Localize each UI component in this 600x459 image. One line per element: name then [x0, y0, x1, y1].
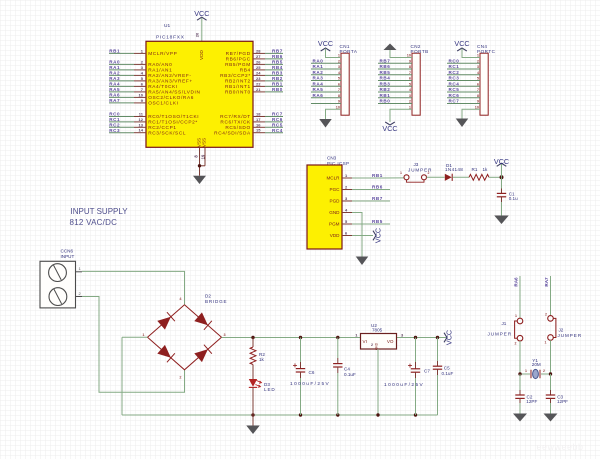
svg-text:27: 27: [256, 54, 261, 59]
svg-text:RB6: RB6: [272, 54, 283, 59]
svg-text:15: 15: [256, 128, 261, 133]
svg-text:23: 23: [256, 76, 261, 81]
svg-text:21: 21: [256, 87, 261, 92]
svg-text:PORTA: PORTA: [340, 49, 358, 54]
svg-text:2: 2: [543, 369, 545, 373]
svg-text:1: 1: [142, 333, 144, 337]
svg-text:8: 8: [338, 94, 340, 98]
svg-text:RB5: RB5: [372, 219, 383, 224]
svg-text:JUMPER: JUMPER: [488, 331, 513, 336]
svg-text:RB3: RB3: [380, 81, 391, 86]
svg-text:VDD: VDD: [199, 49, 204, 59]
svg-text:17: 17: [256, 117, 261, 122]
svg-text:RA6: RA6: [513, 277, 518, 287]
svg-text:RA6: RA6: [313, 93, 324, 98]
svg-text:C4: C4: [344, 366, 350, 371]
svg-text:RB0/INT0: RB0/INT0: [225, 90, 251, 96]
svg-text:8: 8: [409, 65, 411, 69]
svg-text:7: 7: [338, 88, 340, 92]
svg-text:VO: VO: [387, 339, 394, 344]
svg-text:VCC: VCC: [445, 330, 454, 345]
svg-text:RA7: RA7: [544, 277, 549, 287]
svg-text:RB1: RB1: [380, 93, 391, 98]
svg-text:RC6/TX/CK: RC6/TX/CK: [220, 120, 251, 126]
svg-text:10: 10: [139, 92, 144, 97]
svg-text:RA4: RA4: [109, 82, 120, 87]
svg-text:RA4/T0CKI: RA4/T0CKI: [148, 84, 178, 90]
svg-text:RC4: RC4: [272, 128, 283, 133]
svg-text:RB2: RB2: [272, 76, 283, 81]
svg-text:RB5/PGM: RB5/PGM: [225, 62, 251, 68]
svg-text:R1: R1: [472, 167, 478, 172]
svg-text:PGC: PGC: [330, 187, 341, 192]
svg-text:18: 18: [256, 112, 261, 117]
svg-text:VCC: VCC: [194, 9, 209, 18]
svg-text:GND: GND: [329, 210, 340, 215]
svg-text:VI: VI: [363, 339, 367, 344]
svg-text:RA1/AN1: RA1/AN1: [148, 68, 172, 74]
svg-text:3: 3: [338, 65, 340, 69]
svg-text:RA6: RA6: [109, 93, 120, 98]
svg-text:1: 1: [545, 341, 547, 345]
svg-text:1k: 1k: [259, 357, 265, 362]
svg-text:26: 26: [256, 59, 261, 64]
svg-text:RC3: RC3: [109, 128, 120, 133]
svg-text:3: 3: [477, 65, 479, 69]
svg-text:RC5: RC5: [449, 87, 460, 92]
svg-text:BRIDGE: BRIDGE: [205, 299, 227, 304]
svg-text:RB2: RB2: [380, 87, 391, 92]
svg-text:RA3: RA3: [313, 76, 324, 81]
svg-text:RC7: RC7: [449, 99, 460, 104]
svg-text:RA0/AN0: RA0/AN0: [148, 62, 172, 68]
svg-text:8: 8: [477, 94, 479, 98]
svg-text:VDD: VDD: [330, 233, 340, 238]
svg-text:C5: C5: [444, 365, 450, 370]
svg-text:14: 14: [139, 128, 144, 133]
svg-text:RA3/AN3/VREF+: RA3/AN3/VREF+: [148, 79, 193, 85]
svg-text:VCC: VCC: [374, 228, 383, 243]
svg-text:1000uF/25V: 1000uF/25V: [290, 381, 330, 387]
svg-text:12PF: 12PF: [557, 399, 568, 404]
svg-text:RC7/RX/DT: RC7/RX/DT: [220, 114, 251, 120]
svg-text:RC1: RC1: [109, 117, 120, 122]
svg-text:RB5: RB5: [380, 70, 391, 75]
svg-text:5: 5: [409, 82, 411, 86]
svg-text:RB0: RB0: [380, 99, 391, 104]
svg-text:1000uF/25V: 1000uF/25V: [384, 382, 424, 388]
svg-text:22: 22: [256, 81, 261, 86]
svg-text:RA3: RA3: [109, 76, 120, 81]
svg-text:RB0: RB0: [272, 87, 283, 92]
svg-text:2: 2: [545, 312, 547, 316]
svg-text:RC2/CCP1: RC2/CCP1: [148, 125, 176, 131]
svg-text:RA1: RA1: [313, 64, 324, 69]
svg-text:0.1u: 0.1u: [509, 196, 518, 201]
svg-text:RB4: RB4: [240, 68, 251, 74]
svg-text:RA0: RA0: [109, 60, 120, 65]
svg-text:7: 7: [409, 71, 411, 75]
svg-text:RB6: RB6: [380, 64, 391, 69]
svg-text:5: 5: [338, 77, 340, 81]
svg-text:VSS: VSS: [202, 138, 207, 147]
svg-text:1: 1: [525, 369, 527, 373]
svg-text:6: 6: [338, 82, 340, 86]
svg-text:RB7/PGD: RB7/PGD: [226, 51, 251, 57]
svg-text:2: 2: [371, 343, 373, 347]
svg-text:25: 25: [256, 65, 261, 70]
svg-text:RC5/SDO: RC5/SDO: [225, 125, 250, 131]
svg-text:7: 7: [477, 88, 479, 92]
svg-text:GND: GND: [375, 342, 379, 350]
svg-text:2: 2: [409, 100, 411, 104]
svg-text:2: 2: [477, 59, 479, 63]
svg-text:RA5: RA5: [313, 87, 324, 92]
svg-text:J1: J1: [502, 321, 507, 326]
svg-text:RB4: RB4: [272, 65, 283, 70]
svg-text:INPUT: INPUT: [61, 254, 75, 259]
svg-text:7805: 7805: [372, 328, 383, 333]
svg-text:VSS: VSS: [196, 138, 201, 147]
svg-text:20M: 20M: [532, 362, 541, 367]
svg-text:2: 2: [515, 342, 517, 346]
svg-text:RB2/INT2: RB2/INT2: [225, 79, 251, 85]
svg-text:RC4: RC4: [449, 81, 460, 86]
svg-text:9: 9: [338, 100, 340, 104]
svg-text:RC3: RC3: [449, 76, 460, 81]
svg-text:1: 1: [400, 171, 402, 175]
svg-text:RC0/T1OSO/T1CKI: RC0/T1OSO/T1CKI: [148, 114, 199, 120]
svg-text:3: 3: [224, 333, 226, 337]
svg-text:9: 9: [477, 100, 479, 104]
svg-text:CN3: CN3: [327, 156, 337, 161]
svg-text:RB1: RB1: [272, 82, 283, 87]
svg-text:RC2: RC2: [109, 123, 120, 128]
svg-text:RC1: RC1: [449, 64, 460, 69]
svg-text:RB7: RB7: [380, 58, 391, 63]
svg-text:J2: J2: [559, 327, 564, 332]
svg-text:2: 2: [338, 59, 340, 63]
svg-text:VCC: VCC: [382, 124, 397, 133]
svg-text:PORTC: PORTC: [477, 49, 496, 54]
svg-text:RA5/AN4/SS/LVDIN: RA5/AN4/SS/LVDIN: [148, 90, 200, 96]
svg-text:12: 12: [139, 117, 144, 122]
svg-text:U1: U1: [164, 23, 170, 29]
svg-text:6: 6: [477, 82, 479, 86]
svg-text:CCN6: CCN6: [61, 248, 74, 253]
svg-text:MCLR/VPP: MCLR/VPP: [148, 51, 177, 57]
svg-text:3: 3: [409, 94, 411, 98]
svg-text:JUMPER: JUMPER: [558, 333, 583, 338]
svg-text:RA4: RA4: [313, 81, 324, 86]
svg-text:RA7: RA7: [109, 98, 120, 103]
svg-text:RC1/T1OSI/CCP2*: RC1/T1OSI/CCP2*: [148, 120, 198, 126]
svg-text:INPUT SUPPLY: INPUT SUPPLY: [71, 207, 129, 216]
svg-text:12PF: 12PF: [526, 399, 537, 404]
svg-text:RB1/INT1: RB1/INT1: [225, 84, 251, 90]
svg-text:812 VAC/DC: 812 VAC/DC: [70, 218, 118, 227]
svg-text:LED: LED: [264, 387, 276, 392]
svg-text:2: 2: [179, 376, 181, 380]
svg-text:C6: C6: [309, 370, 315, 375]
svg-text:VCC: VCC: [454, 39, 469, 48]
svg-text:24: 24: [256, 70, 261, 75]
svg-text:RB1: RB1: [372, 173, 383, 178]
svg-text:16: 16: [256, 122, 261, 127]
svg-text:RB6: RB6: [372, 184, 383, 189]
svg-text:RC2: RC2: [449, 70, 460, 75]
svg-text:PGM: PGM: [329, 222, 340, 227]
svg-text:RA1: RA1: [109, 65, 120, 70]
svg-text:VCC: VCC: [318, 39, 333, 48]
svg-text:0.1uF: 0.1uF: [442, 371, 454, 376]
svg-text:RC4/SDI/SDA: RC4/SDI/SDA: [214, 130, 251, 136]
svg-text:RC7: RC7: [272, 112, 283, 117]
svg-text:20: 20: [195, 32, 200, 37]
svg-text:RC3/SCK/SCL: RC3/SCK/SCL: [148, 130, 186, 136]
svg-text:PGD: PGD: [330, 199, 341, 204]
svg-text:PIC18FXX: PIC18FXX: [156, 35, 185, 41]
svg-text:PORTB: PORTB: [411, 49, 429, 54]
svg-text:RB1: RB1: [109, 49, 120, 54]
svg-text:RC5: RC5: [272, 123, 283, 128]
svg-text:C7: C7: [424, 369, 430, 374]
svg-text:13: 13: [139, 122, 144, 127]
svg-text:28: 28: [256, 48, 261, 53]
svg-text:OSC2/CLKO/RA6: OSC2/CLKO/RA6: [148, 95, 194, 101]
svg-text:0.1uF: 0.1uF: [344, 372, 356, 377]
svg-text:5: 5: [477, 77, 479, 81]
svg-text:RC6: RC6: [449, 93, 460, 98]
svg-text:2: 2: [428, 171, 430, 175]
svg-text:RC0: RC0: [449, 58, 460, 63]
svg-text:eewweebb: eewweebb: [536, 442, 583, 452]
svg-text:RB7: RB7: [272, 49, 283, 54]
svg-text:J3: J3: [414, 162, 419, 167]
svg-text:RC6: RC6: [272, 117, 283, 122]
svg-text:RA2/AN2/VREF-: RA2/AN2/VREF-: [148, 73, 191, 79]
svg-text:OSC1/CLKI: OSC1/CLKI: [148, 101, 178, 107]
svg-text:RB7: RB7: [372, 196, 383, 201]
svg-text:6: 6: [409, 77, 411, 81]
svg-text:MCLR: MCLR: [326, 176, 340, 181]
svg-text:RB3/CCP2*: RB3/CCP2*: [220, 73, 251, 79]
svg-text:RB5: RB5: [272, 60, 283, 65]
svg-text:RB4: RB4: [380, 76, 391, 81]
svg-text:RA2: RA2: [109, 71, 120, 76]
svg-text:1k: 1k: [483, 167, 489, 172]
svg-text:RA0: RA0: [313, 58, 324, 63]
svg-text:RB3: RB3: [272, 71, 283, 76]
svg-text:1: 1: [515, 314, 517, 318]
svg-text:RA2: RA2: [313, 70, 324, 75]
svg-text:RB6/PGC: RB6/PGC: [226, 57, 251, 63]
svg-text:9: 9: [409, 59, 411, 63]
svg-text:RA5: RA5: [109, 87, 120, 92]
svg-text:RC0: RC0: [109, 112, 120, 117]
svg-text:1N4148: 1N4148: [445, 167, 463, 172]
